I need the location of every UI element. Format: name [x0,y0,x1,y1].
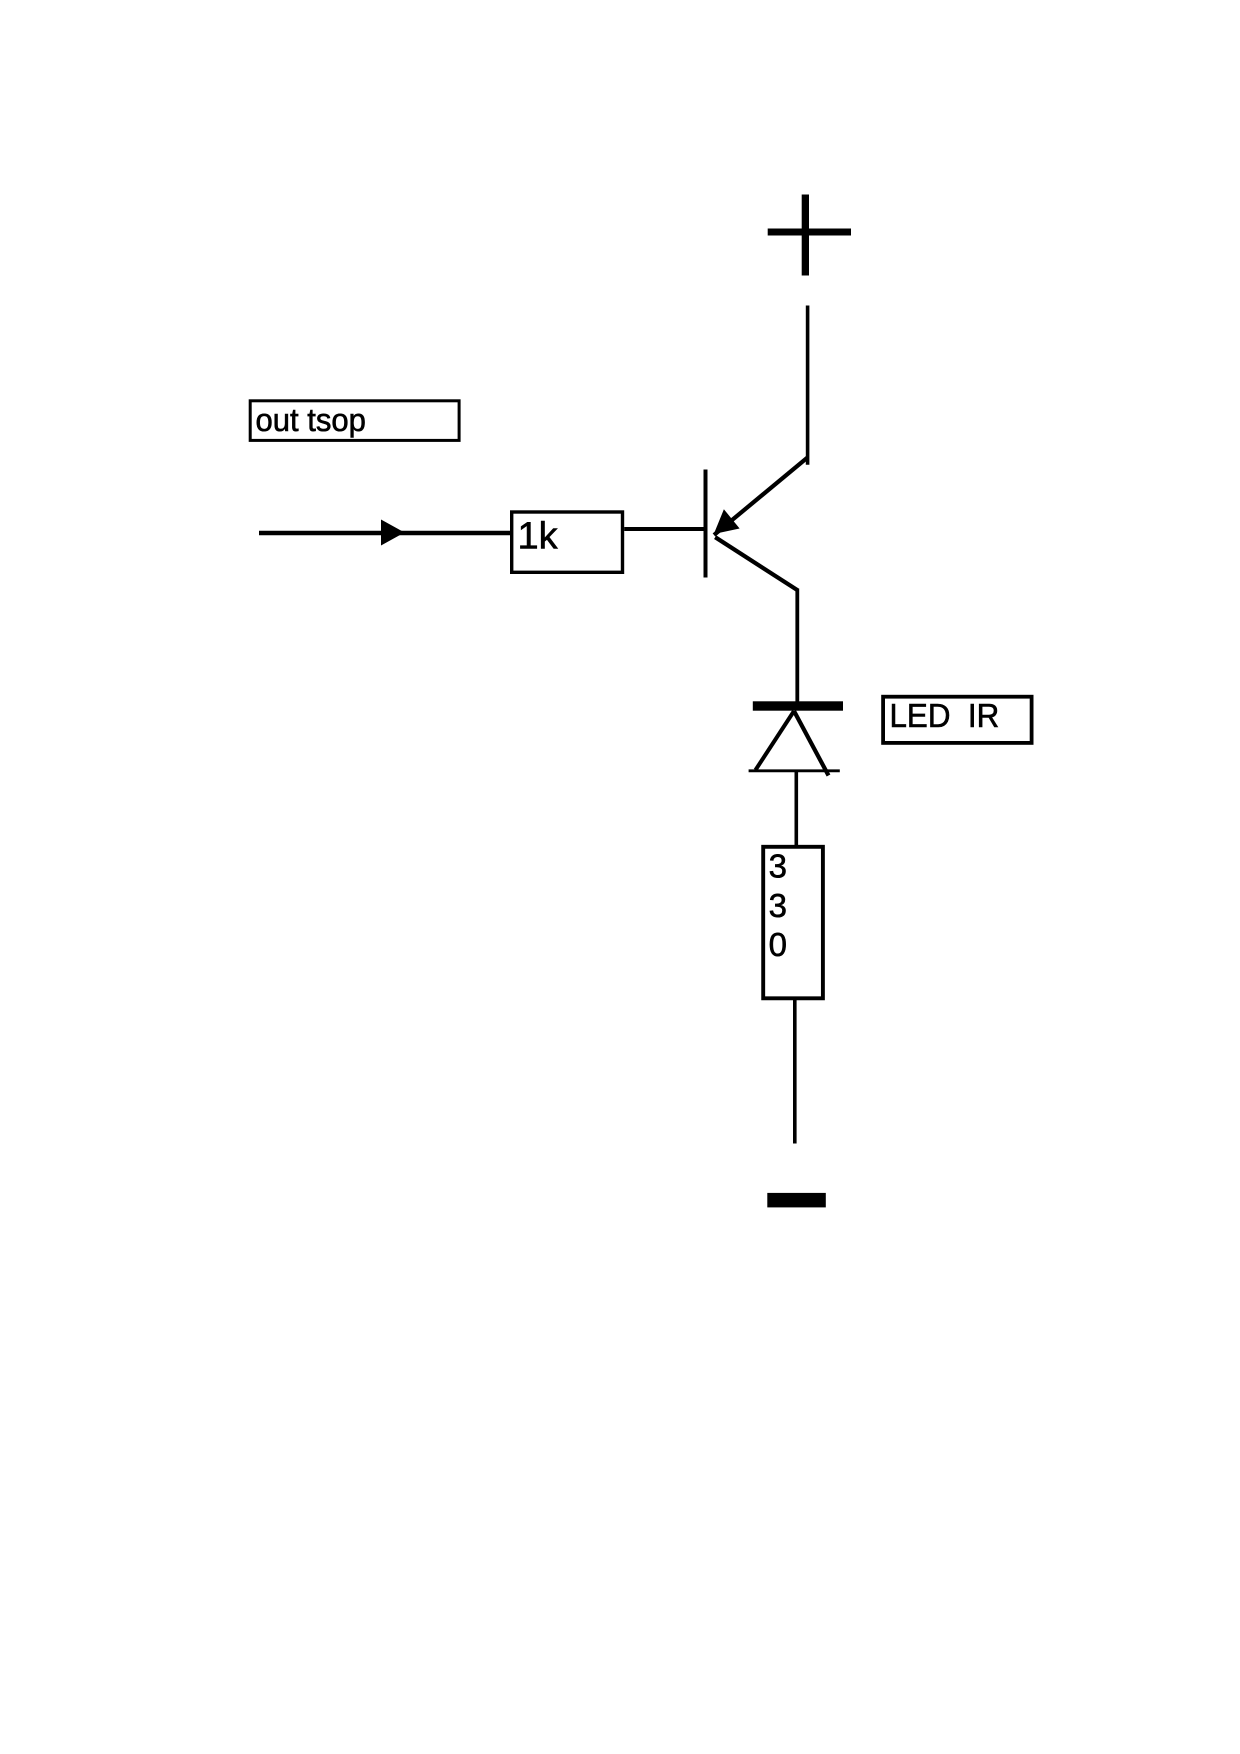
svg-text:LED IR: LED IR [890,697,1000,734]
svg-text:0: 0 [769,926,787,963]
LED D1 triangle left side [756,711,795,770]
LED D1 triangle right side [794,711,829,776]
LED D1 anode base line [749,769,840,772]
svg-text:3: 3 [769,848,787,885]
transistor Q1 base bar [704,470,708,578]
wire + to transistor Q1 emitter [806,306,810,465]
LED IR label box [883,697,1032,743]
arrowhead on input wire [381,520,405,546]
wire Q1 collector to LED D1 [795,589,799,703]
svg-text:1k: 1k [518,516,559,558]
ground / power - symbol [767,1193,826,1208]
svg-text:3: 3 [769,887,787,924]
svg-text:out tsop: out tsop [256,401,366,438]
resistor R1 1k [512,512,623,572]
wire D1 to R2 [794,771,798,846]
resistor R2 330 [763,847,823,999]
transistor Q1 collector diagonal (to LED) [715,537,798,590]
transistor Q1 emitter diagonal (to +) [714,458,808,536]
wire R2 to - [793,1000,797,1144]
power + supply symbol [768,195,851,276]
wire input (out tsop net) [259,531,510,535]
LED D1 cathode bar [753,701,843,710]
wire R1 to Q1 base [624,527,703,531]
out tsop label box [250,401,459,441]
transistor Q1 emitter arrowhead [714,509,740,534]
